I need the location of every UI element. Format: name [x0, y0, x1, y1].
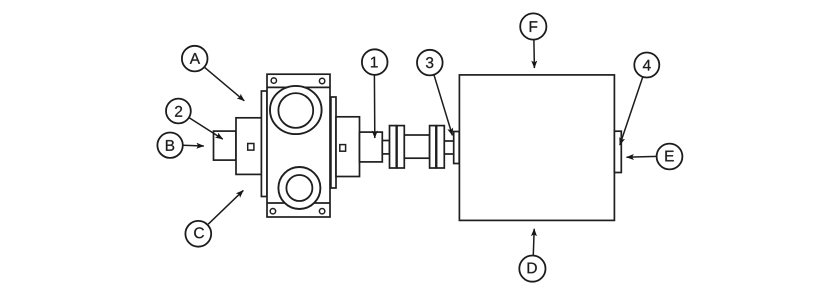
- coupling flange 1 left disc: [390, 126, 397, 168]
- leader arrow 2: [188, 117, 222, 139]
- label C: [194, 227, 204, 238]
- callout balloon B: [157, 133, 182, 158]
- callout balloon F: [520, 13, 546, 39]
- right flange block: [336, 117, 360, 177]
- callout balloon 2: [166, 99, 191, 124]
- bolt hole top-right: [319, 78, 324, 83]
- top port inner circle: [278, 93, 313, 128]
- motor box: [459, 75, 614, 221]
- bolt hole top-left: [271, 78, 276, 83]
- leader arrow E: [627, 155, 658, 158]
- callout balloon 4: [634, 53, 659, 78]
- leader arrow 1: [373, 74, 375, 138]
- bottom cover line: [267, 202, 330, 204]
- label 4: [643, 60, 651, 71]
- right side plate: [331, 97, 336, 188]
- coupling flange 2 left disc: [430, 126, 436, 168]
- leader arrow F: [533, 40, 536, 68]
- bottom port outer circle: [278, 167, 320, 209]
- leader arrow A: [204, 67, 244, 101]
- bolt hole bottom-right: [319, 209, 324, 214]
- label E: [665, 151, 673, 162]
- leader arrow C: [208, 190, 243, 224]
- right flange square hole: [340, 145, 346, 152]
- bottom port inner circle: [286, 175, 312, 201]
- coupling flange 1 right disc: [397, 126, 404, 168]
- top port outer circle: [270, 86, 322, 134]
- leader arrow 4: [620, 76, 643, 145]
- top cover line: [267, 86, 330, 88]
- callout balloon E: [657, 144, 683, 170]
- shaft stub: [360, 132, 383, 162]
- inlet port B rect: [214, 131, 237, 160]
- left flange block: [236, 118, 262, 175]
- leader arrow B: [183, 144, 204, 147]
- label A: [190, 53, 200, 64]
- motor shaft tab: [454, 132, 460, 164]
- callout balloon 1: [362, 49, 388, 75]
- shaft neck 1: [382, 141, 389, 154]
- callout balloon C: [185, 221, 211, 247]
- left flange square hole: [248, 144, 254, 151]
- label F: [530, 21, 538, 32]
- label D: [528, 263, 537, 274]
- bolt hole bottom-left: [270, 209, 275, 214]
- label 2: [175, 106, 182, 117]
- motor right tab: [614, 131, 621, 172]
- callout balloon D: [519, 256, 545, 282]
- leader arrow D: [532, 229, 535, 255]
- label 3: [426, 57, 433, 68]
- coupling middle shaft: [404, 135, 429, 158]
- shaft neck 2: [444, 141, 454, 154]
- callout balloon A: [182, 46, 208, 72]
- pump main body: [267, 74, 330, 217]
- callout balloon 3: [417, 50, 443, 76]
- leader arrow 3: [434, 73, 453, 135]
- coupling flange 2 right disc: [437, 126, 445, 168]
- label B: [166, 140, 174, 151]
- left side plate: [261, 91, 267, 197]
- label 1: [371, 57, 378, 68]
